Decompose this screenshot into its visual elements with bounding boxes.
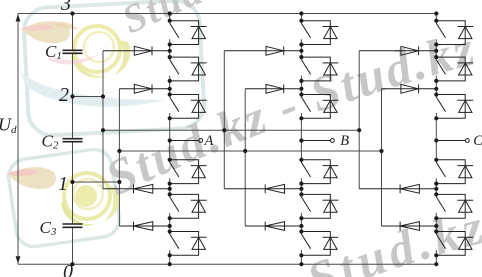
node 2 distribution line to legs B,C xyxy=(103,129,359,131)
node 1 wire xyxy=(73,181,120,183)
clamping diode VD3C (row y=188.8) xyxy=(359,184,436,193)
svg-text:A: A xyxy=(204,133,214,149)
node 1 junction on clamp feed xyxy=(117,180,121,184)
leg B chain wire segments xyxy=(300,14,302,265)
svg-text:3: 3 xyxy=(60,0,71,15)
leg A chain wire segments xyxy=(169,14,171,265)
junction: bottom rail / bus xyxy=(70,262,74,266)
output node C stub with terminal circle xyxy=(436,140,465,142)
node 1 junction on bus xyxy=(70,180,74,184)
switch cell VTC1 (transistor switch + antiparallel diode) xyxy=(436,21,473,45)
clamping diode VD2B (row y=88.8) xyxy=(245,84,301,93)
top rail (node 3 bus) xyxy=(18,13,436,15)
switch cell VTB3 (transistor switch + antiparallel diode) xyxy=(301,95,338,119)
junction: node-2 distribution line / leg C feed xyxy=(357,128,361,132)
switch cell VTA4 (transistor switch + antiparallel diode) xyxy=(170,160,207,184)
clamping diode VD2C (row y=88.8) xyxy=(382,84,437,93)
leg C: node-1 clamp feed vertical xyxy=(381,89,383,226)
switch cell VTC5 (transistor switch + antiparallel diode) xyxy=(436,194,473,218)
switch cell VTC3 (transistor switch + antiparallel diode) xyxy=(436,95,473,119)
clamping diode VD3A (row y=188.8) xyxy=(103,184,170,193)
switch cell VTC6 (transistor switch + antiparallel diode) xyxy=(436,232,473,256)
node 2 junction on clamp feed xyxy=(101,94,105,98)
junction: node-1 distribution line / leg B feed xyxy=(243,149,247,153)
svg-text:2: 2 xyxy=(59,84,69,106)
junction: node-2 distribution line / leg A feed xyxy=(101,128,105,132)
leg B: node-1 clamp feed vertical xyxy=(244,89,246,226)
switch cell VTC2 (transistor switch + antiparallel diode) xyxy=(436,57,473,81)
junction: node-1 distribution line / leg A feed xyxy=(117,149,121,153)
junction: top rail / leg C chain xyxy=(434,11,438,15)
Ud dimension line with arrowheads xyxy=(17,14,19,265)
leg C: node-2 clamp feed vertical xyxy=(358,51,360,189)
capacitor labels C1 C2 C3 xyxy=(40,42,62,238)
switch cell VTB2 (transistor switch + antiparallel diode) xyxy=(301,57,338,81)
svg-text:1: 1 xyxy=(58,173,68,195)
clamping diode VD4B (row y=226) xyxy=(245,222,301,231)
switch cell VTB4 (transistor switch + antiparallel diode) xyxy=(301,160,338,184)
switch cell VTA1 (transistor switch + antiparallel diode) xyxy=(170,21,207,45)
switch cell VTB1 (transistor switch + antiparallel diode) xyxy=(301,21,338,45)
clamping diode VD3B (row y=188.8) xyxy=(224,184,301,193)
capacitor bus (vertical) xyxy=(72,14,74,51)
capacitor C1 plates xyxy=(63,49,83,51)
node labels 3 2 1 0 xyxy=(58,0,73,277)
watermark: Stud.kz logo bottom-left xyxy=(6,147,122,249)
svg-text:B: B xyxy=(340,133,349,149)
junction: top rail / bus xyxy=(70,11,74,15)
node 2 wire xyxy=(73,96,104,98)
switch cell VTA5 (transistor switch + antiparallel diode) xyxy=(170,194,207,218)
watermark: Stud.kz logo top-left (rounded frame with pastel swirls) xyxy=(20,0,205,137)
switch cell VTB5 (transistor switch + antiparallel diode) xyxy=(301,194,338,218)
clamping diode VD4A (row y=226) xyxy=(119,222,169,231)
junction: node-2 distribution line / leg B feed xyxy=(222,128,226,132)
clamping diode VD1B (row y=50.8) xyxy=(224,46,301,55)
node 2 junction on bus xyxy=(70,94,74,98)
svg-text:C: C xyxy=(473,133,482,149)
junction: bottom rail / leg B chain xyxy=(299,262,303,266)
clamping diode VD1C (row y=50.8) xyxy=(359,46,436,55)
leg C chain wire segments xyxy=(435,14,437,265)
clamping diode VD4C (row y=226) xyxy=(382,222,437,231)
switch cell VTA3 (transistor switch + antiparallel diode) xyxy=(170,95,207,119)
capacitor C3 plates xyxy=(63,223,83,225)
bottom rail (node 0 bus) xyxy=(18,263,436,265)
junction: bottom rail / leg A chain xyxy=(168,262,172,266)
switch cell VTC4 (transistor switch + antiparallel diode) xyxy=(436,160,473,184)
leg A: node-2 clamp feed vertical xyxy=(102,51,104,189)
junction: node-1 distribution line / leg C feed xyxy=(379,149,383,153)
switch cell VTA6 (transistor switch + antiparallel diode) xyxy=(170,232,207,256)
leg A: node-1 clamp feed vertical xyxy=(118,89,120,226)
capacitor C2 plates xyxy=(63,138,83,140)
output node B stub with terminal circle xyxy=(301,140,330,142)
output node A stub with terminal circle xyxy=(170,140,199,142)
junction: bottom rail / leg C chain xyxy=(434,262,438,266)
clamping diode VD1A (row y=50.8) xyxy=(103,46,170,55)
svg-text:0: 0 xyxy=(63,261,73,277)
node 1 distribution line to legs B,C xyxy=(119,150,381,152)
junction: top rail / leg B chain xyxy=(299,11,303,15)
junction: top rail / leg A chain xyxy=(168,11,172,15)
leg B: node-2 clamp feed vertical xyxy=(223,51,225,189)
switch cell VTA2 (transistor switch + antiparallel diode) xyxy=(170,57,207,81)
switch cell VTB6 (transistor switch + antiparallel diode) xyxy=(301,232,338,256)
clamping diode VD2A (row y=88.8) xyxy=(119,84,169,93)
